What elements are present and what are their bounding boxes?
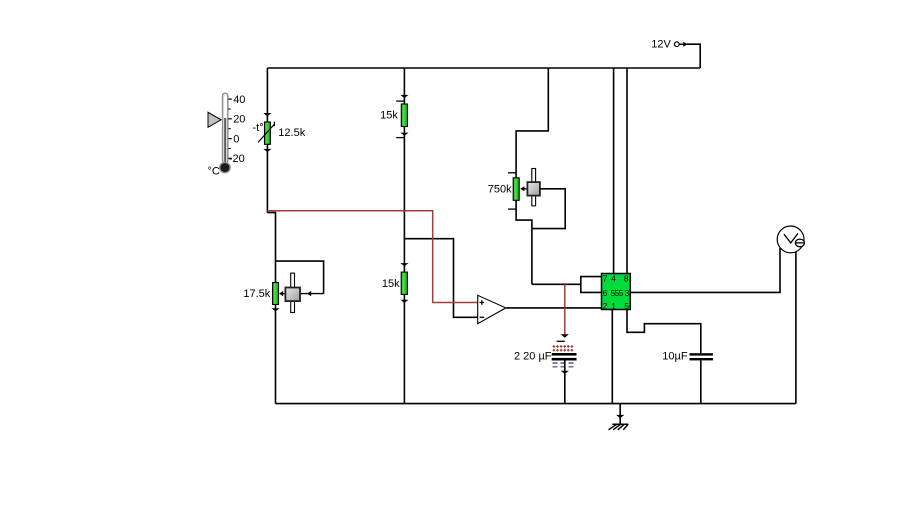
svg-text:20: 20 [233, 114, 245, 126]
svg-text:6: 6 [603, 288, 608, 298]
IC U2 555 timer [602, 273, 631, 311]
svg-text:750k: 750k [488, 183, 512, 195]
svg-text:4: 4 [611, 273, 616, 283]
svg-text:15k: 15k [380, 110, 398, 122]
wire 555 pin3 to lamp [630, 248, 780, 292]
probe tick above 750k [508, 172, 516, 174]
wire 555 pin1 to ground rail [611, 310, 613, 404]
wire 220uF bottom to rail [564, 361, 566, 404]
node 12V supply terminal [651, 39, 688, 51]
current arrow above 220uF [561, 334, 569, 337]
wire 750k bottom [516, 200, 532, 284]
wire bottom rail [276, 403, 796, 405]
svg-text:15k: 15k [382, 278, 400, 290]
current arrow below 220uF [561, 371, 569, 374]
wire 10uF bottom to rail [700, 360, 702, 403]
probe tick below 750k [508, 208, 516, 210]
wire 750k wiper loop [532, 189, 565, 229]
wire 15k branch vertical [403, 68, 405, 404]
wire 750k top to rail [516, 68, 548, 178]
svg-text:12V: 12V [651, 39, 671, 51]
potentiometer R2 17.5k [243, 273, 300, 312]
svg-text:12.5k: 12.5k [278, 127, 305, 139]
potentiometer R5 750k [488, 169, 540, 206]
current arrow above 15k R4 [400, 263, 408, 266]
wire junction to 555 pins 6+7 bracket [532, 283, 581, 285]
thermistor R1 12.5k [253, 122, 306, 145]
svg-text:10µF: 10µF [662, 350, 688, 362]
op-amp U1 [478, 295, 506, 323]
svg-text:3: 3 [625, 288, 630, 298]
wire bracket pin7/pin6 [581, 277, 602, 293]
wire op-amp inverting input path [404, 239, 477, 318]
probe tick below 15k R3 [396, 137, 404, 139]
svg-text:-t°: -t° [253, 122, 264, 134]
current arrow below 15k R3 [400, 133, 408, 136]
svg-text:2 20 µF: 2 20 µF [514, 350, 552, 362]
resistor R3 15k [380, 104, 407, 127]
svg-text:40: 40 [233, 94, 245, 106]
wire jog to potentiometer branch [267, 213, 275, 283]
current arrow below 17.5k [271, 308, 279, 311]
wire 17.5k wiper loop top [276, 261, 324, 294]
arrow on wiper wire [307, 291, 311, 296]
lamp L1 [777, 226, 804, 253]
svg-text:555: 555 [611, 289, 624, 298]
current arrow below thermistor [263, 149, 271, 152]
current arrow below 15k R4 [400, 300, 408, 303]
wire 17.5k wiper horizontal [300, 293, 324, 295]
wire 555 pin5 to 10uF [627, 310, 701, 354]
wire lamp right leg to rail [795, 252, 797, 404]
svg-text:7: 7 [603, 273, 608, 283]
current arrow above thermistor [263, 113, 271, 116]
wire left branch (thermistor) [266, 68, 268, 213]
svg-text:0: 0 [233, 134, 239, 146]
resistor R4 15k [382, 272, 408, 294]
ground [609, 424, 629, 430]
capacitor C2 10uF [662, 350, 713, 362]
wire ground stem [619, 404, 621, 425]
capacitor C1 220uF electrolytic with charge marks [514, 345, 577, 367]
svg-text:-20: -20 [229, 153, 245, 165]
wire red 220uF top [564, 284, 566, 334]
wire top rail [267, 67, 700, 69]
svg-text:8: 8 [624, 273, 629, 283]
wire 555 pin4 to top rail [613, 68, 615, 274]
current arrow above 15k R3 [400, 95, 408, 98]
svg-text:17.5k: 17.5k [243, 288, 270, 300]
probe tick above 220uF [557, 340, 565, 342]
current arrow above ground [616, 415, 624, 418]
wire op-amp output to 555 pin2 [506, 307, 602, 309]
svg-text:2: 2 [603, 301, 608, 311]
wire red thermistor junction to op-amp non-inverting input [267, 211, 477, 303]
probe tick above 15k R3 [396, 100, 404, 102]
wire 555 pin8 to top rail [626, 68, 628, 274]
svg-text:°C: °C [208, 166, 220, 178]
wire 17.5k bottom to rail [275, 305, 277, 404]
wire 12V feed [687, 44, 700, 68]
thermometer [208, 93, 246, 177]
